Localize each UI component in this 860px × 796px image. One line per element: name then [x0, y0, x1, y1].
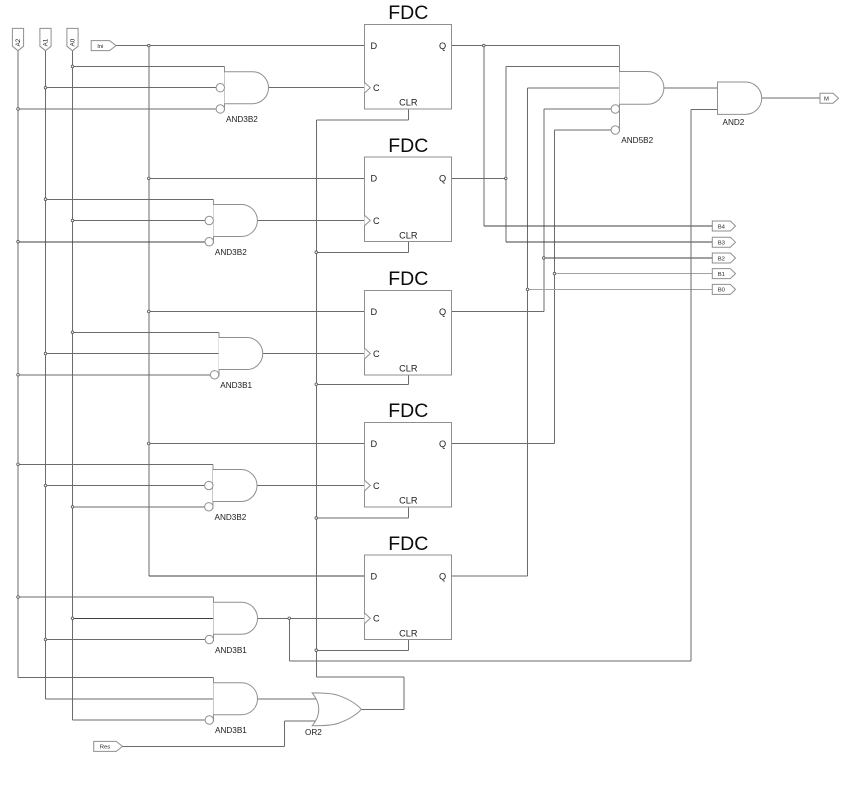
wire Q4 vertical — [554, 130, 556, 443]
wire A-net to gate 5 input 2 — [73, 617, 214, 619]
wire Q2 vertical — [505, 67, 507, 243]
wire gate 2 output to FDC2 C — [257, 220, 364, 222]
wire AND5B2 output to AND2 in1 — [664, 87, 718, 89]
node A-net gate5 in3 — [44, 638, 47, 641]
node A-net gate1 in3 — [17, 108, 20, 111]
svg-text:AND3B1: AND3B1 — [220, 381, 252, 390]
node B2 branch — [542, 257, 545, 260]
node A-net gate3 in2 — [44, 352, 47, 355]
wire A-net to gate 4 input 1 — [18, 463, 213, 465]
svg-text:Ini: Ini — [97, 44, 103, 50]
wire gate 5 output to FDC5 C — [258, 617, 365, 619]
flip-flop U2 FDC — [365, 135, 452, 242]
svg-text:C: C — [373, 349, 380, 359]
wire gate 6 output to OR2 in1 — [258, 698, 321, 700]
node Ini-D1 — [147, 44, 150, 47]
svg-text:D: D — [371, 174, 378, 184]
wire Res to OR2 in2 — [285, 720, 321, 722]
flip-flop U4 FDC — [365, 400, 452, 507]
input port Res — [94, 741, 123, 751]
svg-text:C: C — [373, 481, 380, 491]
wire FDC5 Q to node — [452, 575, 528, 577]
output port M — [820, 93, 839, 103]
output port B4 — [712, 221, 735, 231]
wire A-net to gate 3 input 2 — [46, 353, 219, 355]
and-gate G1 AND3B2 — [216, 66, 268, 124]
wire OR2 output horizontal — [361, 709, 404, 711]
wire Ini to FDC1 D — [116, 45, 365, 47]
svg-text:C: C — [373, 614, 380, 624]
node CLR bus FDC5 — [315, 649, 318, 652]
output port B0 — [712, 284, 735, 294]
input port Ini — [91, 41, 116, 51]
svg-text:B1: B1 — [718, 272, 725, 278]
and-gate G2 AND3B2 — [205, 199, 257, 257]
svg-text:AND3B1: AND3B1 — [215, 726, 247, 735]
input port A2 — [12, 28, 23, 50]
svg-text:CLR: CLR — [399, 628, 418, 638]
wire FDC4 CLR to bus — [316, 517, 408, 519]
wire FDC5 CLR pin drop — [408, 640, 410, 651]
wire A-net to gate 6 input 2 — [46, 698, 214, 700]
svg-text:B0: B0 — [718, 288, 726, 294]
wire net A2 vertical — [17, 51, 19, 678]
wire Ini net to FDC3 D — [149, 310, 365, 312]
node Ini-D3 — [147, 310, 150, 313]
wire OR2 output riser — [403, 677, 405, 710]
wire A-net to gate 6 input 3 — [73, 719, 206, 721]
svg-text:B2: B2 — [718, 256, 725, 262]
node A-net gate4 in1 — [17, 463, 20, 466]
wire A-net to gate 3 input 1 — [73, 331, 219, 333]
svg-text:Q: Q — [439, 41, 446, 51]
svg-text:CLR: CLR — [399, 231, 418, 241]
wire Ini net to FDC2 D — [149, 177, 365, 179]
wire A-net to gate 1 input 1 — [73, 65, 225, 67]
svg-text:FDC: FDC — [388, 2, 428, 24]
svg-text:A2: A2 — [15, 38, 22, 46]
and-gate G5 AND3B1 — [205, 597, 257, 655]
svg-text:CLR: CLR — [399, 496, 418, 506]
node Q2 branch — [504, 177, 507, 180]
node A-net gate5 in1 — [17, 596, 20, 599]
svg-text:Q: Q — [439, 439, 446, 449]
wire FDC3 CLR pin drop — [408, 375, 410, 385]
output port B1 — [712, 269, 735, 279]
wire FDC1 CLR to bus — [316, 119, 408, 121]
and-gate U6 AND5B2 — [611, 46, 664, 146]
wire to port B1 — [555, 273, 713, 275]
wire Q2 to AND5B2 in2 — [506, 66, 620, 68]
node B1 branch — [553, 272, 556, 275]
wire to port B2 — [544, 257, 713, 259]
and-gate G3 AND3B1 — [210, 332, 262, 390]
wire A-net to gate 4 input 3 — [73, 506, 205, 508]
wire A-net to gate 2 input 3 — [18, 241, 205, 243]
svg-text:D: D — [371, 307, 378, 317]
wire Q5 to AND5B2 in3 — [528, 87, 620, 89]
wire Q3 vertical — [543, 109, 545, 311]
node CLR bus FDC3 — [315, 383, 318, 386]
svg-text:A0: A0 — [70, 38, 77, 46]
wire net A1 vertical — [45, 51, 47, 699]
node A-net gate1 in1 — [71, 65, 74, 68]
svg-text:B4: B4 — [718, 224, 726, 230]
wire FDC2 CLR to bus — [316, 251, 408, 253]
flip-flop U1 FDC — [365, 2, 452, 109]
wire A-net to gate 2 input 2 — [73, 220, 206, 222]
wire FDC5 CLR to bus — [316, 649, 408, 651]
svg-text:A1: A1 — [43, 38, 50, 46]
wire Q3 to AND5B2 in4 bubble — [544, 108, 611, 110]
node Ini-D4 — [147, 442, 150, 445]
output port B3 — [712, 237, 735, 247]
wire node G5 drop — [288, 618, 290, 661]
wire Q1 vertical to B4 — [483, 46, 485, 226]
wire to port B3 — [506, 241, 713, 243]
svg-text:D: D — [371, 439, 378, 449]
wire Q5 vertical — [527, 88, 529, 576]
wire A-net to gate 6 input 1 — [18, 677, 214, 679]
wire G5 net riser to AND2 — [690, 109, 692, 661]
wire gate 3 output to FDC3 C — [263, 353, 365, 355]
wire A-net to gate 1 input 2 — [46, 87, 217, 89]
svg-text:B3: B3 — [718, 241, 726, 247]
wire FDC1 CLR pin drop — [408, 109, 410, 120]
node Q1 branch — [482, 44, 485, 47]
wire FDC4 CLR pin drop — [408, 507, 410, 518]
svg-text:FDC: FDC — [388, 533, 428, 555]
svg-text:FDC: FDC — [388, 400, 428, 422]
node A-net gate2 in2 — [71, 219, 74, 222]
and-gate G4 AND3B2 — [205, 464, 257, 522]
node Ini-D2 — [147, 177, 150, 180]
wire CLR bus vertical — [315, 120, 317, 677]
svg-text:C: C — [373, 216, 380, 226]
svg-text:OR2: OR2 — [305, 728, 322, 737]
wire Q4 to AND5B2 in5 bubble — [555, 129, 612, 131]
node CLR bus FDC4 — [315, 517, 318, 520]
wire Ini net to FDC5 D — [149, 575, 365, 577]
svg-text:CLR: CLR — [399, 98, 418, 108]
wire FDC2 Q to node — [452, 177, 506, 179]
svg-text:Q: Q — [439, 307, 446, 317]
wire A-net to gate 5 input 3 — [46, 639, 206, 641]
wire net Ini vertical — [148, 46, 150, 577]
or-gate U8 OR2 — [305, 693, 361, 737]
svg-text:AND3B2: AND3B2 — [215, 248, 247, 257]
svg-text:Q: Q — [439, 174, 446, 184]
svg-text:AND2: AND2 — [723, 118, 745, 127]
wire net A0 vertical — [72, 51, 74, 720]
wire CLR bus bottom horizontal — [316, 676, 404, 678]
svg-text:FDC: FDC — [388, 268, 428, 290]
wire FDC3 CLR to bus — [316, 383, 408, 385]
output port B2 — [712, 253, 735, 263]
node A-net gate4 in2 — [44, 484, 47, 487]
wire gate 1 output to FDC1 C — [269, 87, 365, 89]
wire FDC2 CLR pin drop — [408, 242, 410, 253]
node B0 branch — [526, 288, 529, 291]
node A-net gate1 in2 — [44, 86, 47, 89]
wire gate 4 output to FDC4 C — [257, 485, 365, 487]
svg-text:Res: Res — [100, 745, 111, 751]
and-gate G6 AND3B1 — [205, 678, 257, 736]
node gate5 output branch — [288, 617, 291, 620]
node A-net gate3 in1 — [71, 331, 74, 334]
flip-flop U5 FDC — [365, 533, 452, 640]
wire G5 net horizontal — [289, 660, 691, 662]
node A-net gate5 in2 — [71, 617, 74, 620]
svg-text:FDC: FDC — [388, 135, 428, 157]
node A-net gate2 in3 — [17, 240, 20, 243]
flip-flop U3 FDC — [365, 268, 452, 375]
svg-text:C: C — [373, 83, 380, 93]
svg-text:AND3B2: AND3B2 — [226, 115, 258, 124]
svg-text:CLR: CLR — [399, 364, 418, 374]
wire to AND2 in2 — [691, 108, 718, 110]
wire A-net to gate 4 input 2 — [46, 485, 205, 487]
wire FDC3 Q to node — [452, 310, 544, 312]
wire Ini net to FDC4 D — [149, 442, 365, 444]
node CLR bus FDC2 — [315, 251, 318, 254]
svg-text:D: D — [371, 41, 378, 51]
svg-text:AND5B2: AND5B2 — [621, 136, 653, 145]
node A-net gate2 in1 — [44, 198, 47, 201]
svg-text:M: M — [824, 97, 829, 103]
wire AND2 output to port M — [762, 97, 820, 99]
node A-net gate3 in3 — [17, 374, 20, 377]
wire FDC1 Q to AND5B2 in1 — [452, 45, 620, 47]
wire A-net to gate 5 input 1 — [18, 596, 214, 598]
input port A0 — [67, 28, 78, 50]
wire A-net to gate 1 input 3 — [18, 108, 216, 110]
svg-text:AND3B2: AND3B2 — [215, 513, 247, 522]
wire to port B0 — [528, 288, 713, 290]
wire Res horizontal — [123, 745, 285, 747]
svg-text:D: D — [371, 572, 378, 582]
wire to port B4 — [484, 225, 713, 227]
svg-text:Q: Q — [439, 572, 446, 582]
and-gate U7 AND2 — [718, 82, 762, 127]
input port A1 — [40, 28, 51, 50]
wire Res riser — [284, 721, 286, 747]
wire A-net to gate 3 input 3 — [18, 374, 210, 376]
wire FDC4 Q to node — [452, 442, 555, 444]
wire A-net to gate 2 input 1 — [46, 198, 214, 200]
svg-text:AND3B1: AND3B1 — [215, 646, 247, 655]
node A-net gate4 in3 — [71, 506, 74, 509]
